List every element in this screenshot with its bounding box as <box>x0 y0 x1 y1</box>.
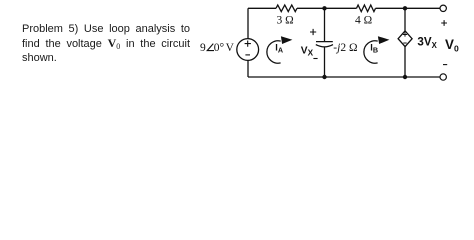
wire: middle branch, top node to capacitor <box>324 8 326 41</box>
wire: left rail from top corner down to source <box>247 8 249 38</box>
dependent source U1 diamond <box>398 31 412 47</box>
terminal: output positive (open circle) <box>440 5 446 11</box>
node: junction dot bottom-right <box>403 75 407 79</box>
wire: right branch, dependent source to bottom node <box>404 47 406 77</box>
wire: top rail, 4-ohm to output terminal <box>376 7 440 9</box>
svg-text:V0: V0 <box>445 37 459 54</box>
node: junction dot top-middle <box>322 6 326 10</box>
label: plus sign at output <box>441 20 447 26</box>
svg-text:IA: IA <box>275 43 283 55</box>
label: minus sign at output <box>443 64 447 66</box>
capacitor C1 top plate <box>316 41 333 43</box>
loop current IB arrowhead <box>378 36 390 44</box>
svg-text:0°: 0° <box>214 42 225 54</box>
dependent source U1 minus sign <box>403 42 406 44</box>
label: plus sign above Vx <box>310 29 316 35</box>
capacitor C1 bottom curved plate <box>316 45 333 47</box>
svg-text:VX: VX <box>301 45 314 57</box>
svg-text:3 Ω: 3 Ω <box>277 14 294 26</box>
resistor R1 3 ohm (zigzag) <box>276 5 297 12</box>
wire: middle branch, capacitor to bottom node <box>324 47 326 77</box>
wire: bottom rail <box>248 76 440 78</box>
dependent source U1 plus sign <box>403 32 407 36</box>
voltage source VS1 plus sign <box>245 41 251 47</box>
svg-text:9: 9 <box>200 42 206 54</box>
svg-text:V: V <box>226 42 235 54</box>
wire: top rail, 3-ohm to 4-ohm resistor <box>297 7 357 9</box>
resistor R2 4 ohm (zigzag) <box>357 5 376 12</box>
label: angle symbol of 9/_0 V source value <box>207 44 214 51</box>
node: junction dot bottom-middle <box>322 75 326 79</box>
wire: left rail from source down to bottom corner <box>247 60 249 77</box>
svg-text:3VX: 3VX <box>417 36 437 51</box>
terminal: output negative (open circle) <box>440 74 446 80</box>
svg-text:IB: IB <box>370 43 378 55</box>
problem statement text <box>22 22 190 65</box>
loop current IA arc <box>267 41 281 63</box>
label: minus sign below Vx <box>313 58 317 60</box>
svg-text:4 Ω: 4 Ω <box>355 14 372 26</box>
node: junction dot top-right <box>403 6 407 10</box>
voltage source VS1 circle <box>237 39 259 61</box>
wire: top rail, left corner to 3-ohm resistor <box>248 7 276 9</box>
voltage source VS1 minus sign <box>245 54 250 56</box>
loop current IA arrowhead <box>281 36 293 44</box>
loop current IB arc <box>364 41 378 63</box>
svg-text:-j2 Ω: -j2 Ω <box>333 42 357 54</box>
wire: right branch, top node to dependent source <box>404 8 406 31</box>
